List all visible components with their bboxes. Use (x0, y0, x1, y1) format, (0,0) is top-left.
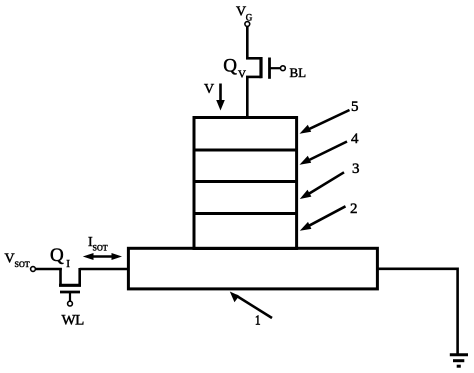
svg-text:2: 2 (350, 201, 358, 217)
arrow V (current into stack) (216, 84, 225, 111)
svg-text:Q: Q (223, 56, 237, 77)
arrow to box 1 (230, 292, 272, 319)
ground (450, 355, 468, 366)
wire Q_I to box 1 (80, 268, 129, 271)
stack layer 5 (outer box of MTJ stack) (194, 118, 297, 249)
transistor Q_V (246, 57, 281, 79)
arrow to layer 4 (300, 142, 348, 165)
arrow to layer 5 (300, 110, 350, 134)
svg-text:I: I (66, 258, 70, 270)
layer line 4/3 (194, 180, 297, 183)
terminal BL (281, 66, 286, 71)
layer line 3/2 (194, 212, 297, 215)
svg-text:4: 4 (351, 131, 359, 147)
terminal WL (68, 301, 73, 306)
terminal VG (245, 22, 250, 27)
svg-text:V: V (238, 69, 246, 81)
svg-text:3: 3 (352, 161, 360, 177)
arrow ISOT (double-headed) (83, 253, 122, 260)
terminal VSOT (31, 267, 36, 272)
wire VSOT to Q_I (35, 268, 61, 271)
arrow to layer 2 (300, 206, 346, 231)
wire box 1 to ground (377, 269, 457, 354)
arrow to layer 3 (300, 172, 344, 199)
svg-text:1: 1 (255, 313, 261, 328)
transistor Q_I (59, 268, 81, 301)
svg-text:5: 5 (351, 99, 359, 115)
svg-text:WL: WL (62, 313, 85, 329)
svg-text:V: V (204, 82, 214, 97)
svg-text:BL: BL (290, 65, 307, 80)
svg-text:V: V (236, 5, 246, 20)
svg-text:SOT: SOT (93, 243, 108, 252)
layer line 5/4 (194, 149, 297, 152)
bottom electrode box 1 (128, 248, 377, 289)
svg-text:V: V (5, 252, 15, 267)
wire VG to Q_V drain (246, 27, 249, 60)
svg-text:Q: Q (50, 245, 64, 266)
svg-text:SOT: SOT (15, 260, 30, 269)
wire Q_V source to stack top (246, 77, 249, 118)
